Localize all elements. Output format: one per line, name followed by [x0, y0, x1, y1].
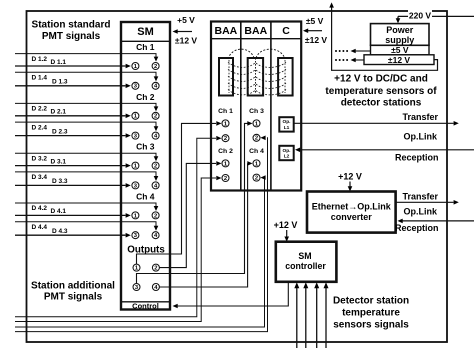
SM Ch3 pins 1 2 [132, 162, 159, 169]
svg-text:Ch 1: Ch 1 [136, 42, 155, 52]
svg-text:±5 V: ±5 V [306, 16, 324, 26]
svg-text:Ch 2: Ch 2 [218, 148, 233, 155]
svg-text:Power: Power [386, 25, 414, 35]
label Transfer (top) [402, 112, 438, 122]
wire D 2.3 [15, 133, 131, 138]
SM Ch4 pins 3 4 [132, 232, 159, 239]
svg-text:detector stations: detector stations [341, 98, 422, 109]
svg-text:2: 2 [255, 176, 258, 182]
caption Detector station temperature sensors signals [333, 295, 409, 330]
temperature sensor line 3 [314, 282, 319, 348]
wire D 4.4 [15, 222, 158, 231]
BAA Ch 4 pin 2 [253, 174, 260, 181]
label D 1.4 [32, 75, 48, 82]
svg-text:BAA: BAA [244, 25, 267, 37]
svg-text:Control: Control [132, 301, 159, 310]
label Transfer (bottom) [402, 191, 438, 201]
wire D 2.1 [15, 114, 131, 119]
SM Ch2 pins 1 2 [132, 112, 159, 119]
+12V label above SM controller [274, 220, 298, 230]
svg-text:D 1.4: D 1.4 [32, 75, 48, 82]
svg-text:Ch 3: Ch 3 [249, 108, 264, 115]
SM Ch4 pins 1 2 [132, 212, 159, 219]
+-12V distribution arrow with dots [335, 58, 364, 63]
wire Transfer from Op.L1 [294, 121, 459, 126]
svg-text:2: 2 [154, 64, 157, 70]
label: Station additional PMT signals [31, 280, 115, 302]
svg-text:SM: SM [137, 26, 154, 38]
svg-text:Ch 3: Ch 3 [136, 142, 155, 152]
label D 1.2 [32, 56, 48, 63]
connector block BAA2 [248, 58, 263, 96]
BAA channel Ch 3 label [249, 108, 264, 115]
wire D 1.3 [15, 84, 131, 89]
svg-text:Op.Link: Op.Link [404, 132, 438, 142]
wire D 2.4 [15, 122, 158, 131]
BAA Ch 1 pin 1 [222, 120, 229, 127]
svg-text:temperature sensors of: temperature sensors of [325, 86, 437, 97]
svg-text:temperature: temperature [342, 307, 400, 318]
label D 4.1 [51, 208, 67, 215]
temperature sensor line 4 [324, 282, 329, 348]
wire Reception to Op.L2 [295, 148, 474, 153]
svg-text:Op.: Op. [283, 119, 291, 125]
SM channel Ch 4 label [136, 191, 155, 201]
svg-text:2: 2 [154, 266, 157, 272]
SM channel Ch 1 label [136, 42, 155, 52]
+12V arrow into SM controller [284, 230, 289, 242]
svg-text:D 1.3: D 1.3 [52, 79, 68, 86]
svg-text:BAA: BAA [215, 25, 238, 37]
temperature sensor line 2 [303, 282, 308, 348]
svg-text:Transfer: Transfer [402, 112, 438, 122]
SM supply +-12V label [175, 36, 197, 46]
svg-text:Op.: Op. [283, 148, 291, 154]
BAA Ch 4 pin 1 [253, 160, 260, 167]
C supply +-12V label [305, 35, 327, 45]
power supply +-5V row [371, 45, 430, 55]
BAA Ch 3 pin 1 [253, 120, 260, 127]
Op.L2 optical link module [279, 146, 293, 160]
svg-text:controller: controller [285, 261, 326, 271]
SM output pins 3 4 [133, 284, 159, 291]
svg-text:D 3.1: D 3.1 [51, 158, 67, 165]
SM Ch1 pins 3 4 [132, 82, 159, 89]
svg-text:sensors signals: sensors signals [333, 319, 409, 330]
label D 4.3 [52, 228, 68, 235]
wire additional PMT 1 to BAA Ch1 pin2 [15, 136, 222, 317]
220 V mains line [396, 16, 474, 23]
svg-text:2: 2 [224, 176, 227, 182]
svg-text:2: 2 [224, 136, 227, 142]
svg-text:D 3.2: D 3.2 [32, 155, 48, 162]
BAA Ch 1 pin 2 [222, 135, 229, 142]
connector block BAA1 [219, 58, 233, 96]
svg-text:+5 V: +5 V [177, 15, 195, 25]
BAA Ch 3 pin 2 [253, 134, 260, 141]
wire D 1.1 [15, 64, 131, 69]
power supply +-12V row [364, 55, 434, 65]
svg-text:2: 2 [154, 164, 157, 170]
wire D 2.2 [15, 103, 158, 111]
label D 1.3 [52, 79, 68, 86]
C supply arrow [303, 28, 322, 33]
+12V riser to detector stations [329, 2, 437, 70]
SM supply arrow [173, 29, 193, 34]
svg-text:D 1.1: D 1.1 [51, 59, 67, 66]
svg-text:Ch 1: Ch 1 [218, 108, 233, 115]
wire D 3.4 [15, 172, 158, 181]
connector block C [278, 58, 293, 96]
svg-text:PMT signals: PMT signals [42, 31, 101, 42]
label D 2.1 [51, 109, 67, 116]
wire D 1.4 [15, 72, 158, 81]
svg-text:D 2.1: D 2.1 [51, 109, 67, 116]
svg-text:Reception: Reception [395, 153, 439, 163]
SM controller box [276, 242, 337, 282]
+12V arrow into converter [348, 182, 353, 192]
Ethernet to Op.Link converter box [307, 192, 396, 233]
BAA channel Ch 1 label [218, 108, 233, 115]
svg-text:Ch 2: Ch 2 [136, 92, 155, 102]
wire SM out4 to BAA Ch4 pin1 [159, 161, 252, 287]
SM channel Ch 2 label [136, 92, 155, 102]
BAA BAA C crate box [211, 22, 301, 191]
BAA channel Ch 4 label [249, 148, 264, 155]
control wire SM controller to SM [173, 282, 289, 309]
svg-text:Detector station: Detector station [333, 295, 409, 306]
label 220 V [408, 10, 432, 20]
wire Reception to converter [398, 219, 474, 224]
svg-text:Ch 4: Ch 4 [249, 148, 264, 155]
svg-text:2: 2 [255, 136, 258, 142]
label D 1.1 [51, 59, 67, 66]
svg-text:Op.Link: Op.Link [404, 207, 438, 217]
label: Station standard PMT signals [32, 20, 111, 42]
SM Outputs label [127, 244, 165, 255]
svg-text:D 4.2: D 4.2 [32, 205, 48, 212]
svg-text:converter: converter [331, 212, 373, 222]
svg-text:±12 V: ±12 V [388, 55, 410, 65]
wire D 4.2 [15, 203, 158, 211]
svg-text:±5 V: ±5 V [391, 45, 409, 55]
wire additional PMT 4 to BAA Ch3 pin2 [15, 136, 268, 332]
label D 2.3 [52, 128, 68, 135]
wire SM out1 to BAA Ch1 pin1 [137, 121, 222, 264]
SM Ch2 pins 3 4 [132, 132, 159, 139]
+12V label above converter [338, 171, 362, 181]
svg-text:+12 V: +12 V [274, 220, 298, 230]
wire D 1.2 [15, 54, 158, 62]
svg-text:220 V: 220 V [409, 10, 432, 20]
BAA Ch 2 pin 2 [222, 175, 229, 182]
svg-text:D 4.4: D 4.4 [32, 224, 48, 231]
wire D 4.1 [15, 213, 131, 218]
label D 4.2 [32, 205, 48, 212]
svg-text:±12 V: ±12 V [175, 36, 197, 46]
svg-text:2: 2 [154, 114, 157, 120]
svg-text:D 1.2: D 1.2 [32, 56, 48, 63]
label Op.Link (top) [404, 132, 438, 142]
C supply +-5V label [306, 16, 324, 26]
wire D 3.2 [15, 153, 158, 161]
wire SM out3 to BAA Ch3 pin1 [137, 121, 253, 283]
svg-text:+12 V to DC/DC and: +12 V to DC/DC and [334, 74, 428, 85]
svg-text:D 4.3: D 4.3 [52, 228, 68, 235]
label Op.Link (bottom) [404, 207, 438, 217]
label D 2.2 [32, 106, 48, 113]
svg-text:SM: SM [298, 251, 311, 261]
svg-text:Transfer: Transfer [402, 191, 438, 201]
wire D 3.3 [15, 183, 131, 188]
wire SM out2 to BAA Ch2 pin1 [159, 161, 221, 268]
wire Transfer from converter [396, 200, 459, 205]
svg-text:supply: supply [385, 35, 414, 45]
SM control strip [121, 301, 170, 310]
label D 3.2 [32, 155, 48, 162]
fibre cables between blocks [228, 49, 286, 95]
svg-text:+12 V: +12 V [338, 171, 362, 181]
label Reception (top) [395, 153, 439, 163]
temperature sensor line 1 [294, 282, 299, 348]
SM output pins 1 2 [133, 264, 159, 271]
svg-text:D 2.2: D 2.2 [32, 106, 48, 113]
power supply box [371, 24, 430, 46]
label Reception (bottom) [395, 223, 439, 233]
Op.L1 optical link module [279, 117, 293, 131]
label D 2.4 [32, 124, 48, 131]
svg-text:C: C [282, 25, 290, 37]
label D 3.3 [52, 178, 68, 185]
svg-text:D 2.4: D 2.4 [32, 124, 48, 131]
SM module box [121, 22, 170, 310]
SM supply +5V label [177, 15, 195, 25]
svg-text:L2: L2 [284, 154, 290, 160]
svg-text:±12 V: ±12 V [305, 35, 327, 45]
svg-text:Station standard: Station standard [32, 20, 111, 31]
svg-text:D 3.4: D 3.4 [32, 174, 48, 181]
BAA Ch 2 pin 1 [222, 160, 229, 167]
label D 3.4 [32, 174, 48, 181]
SM Ch1 pins 1 2 [132, 63, 159, 70]
wire additional PMT 3 to BAA Ch4 pin2 [15, 175, 266, 327]
caption +12 V to DC/DC [325, 74, 437, 109]
svg-text:L1: L1 [284, 125, 290, 131]
svg-text:D 3.3: D 3.3 [52, 178, 68, 185]
label D 4.4 [32, 224, 48, 231]
svg-text:Ch 4: Ch 4 [136, 191, 155, 201]
BAA channel Ch 2 label [218, 148, 233, 155]
svg-text:2: 2 [154, 213, 157, 219]
wire D 3.1 [15, 163, 131, 168]
SM Ch3 pins 3 4 [132, 182, 159, 189]
wire additional PMT 2 to BAA Ch2 pin2 [15, 176, 222, 322]
svg-text:Reception: Reception [395, 223, 439, 233]
SM channel Ch 3 label [136, 142, 155, 152]
label D 3.1 [51, 158, 67, 165]
+-5V distribution arrow with dots [335, 49, 371, 54]
svg-text:D 4.1: D 4.1 [51, 208, 67, 215]
svg-text:D 2.3: D 2.3 [52, 128, 68, 135]
svg-text:PMT signals: PMT signals [44, 291, 103, 302]
svg-text:Ethernet→Op.Link: Ethernet→Op.Link [312, 202, 392, 212]
wire D 4.3 [15, 233, 131, 238]
svg-text:Station additional: Station additional [31, 280, 115, 291]
